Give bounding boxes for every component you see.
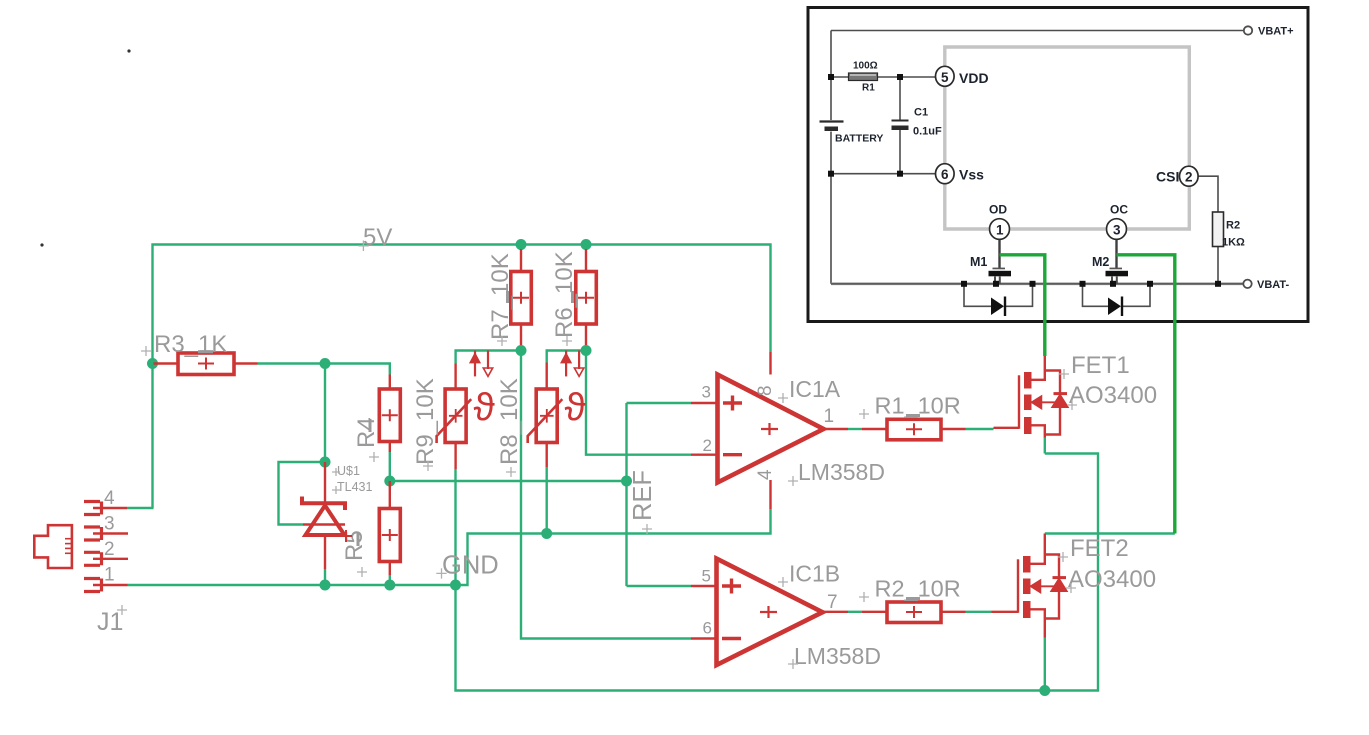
wire R5 bottom (389, 575, 391, 585)
inset M2 mosfet (1106, 268, 1129, 277)
inset pin circle 6 Vss (936, 164, 955, 184)
op-amp IC1A (691, 352, 848, 509)
inset IC box (945, 47, 1190, 229)
inset pin circle 2 CSI (1180, 166, 1199, 186)
svg-text:U$1: U$1 (337, 464, 360, 478)
resistor R3_1K (154, 353, 258, 375)
thermistor R8_10K (528, 351, 587, 468)
svg-text:4: 4 (755, 469, 776, 480)
svg-text:6: 6 (703, 619, 712, 638)
resistor R5 (379, 481, 400, 575)
svg-text:J1: J1 (97, 608, 123, 636)
op-amp IC1B (691, 559, 848, 665)
connector J1 (34, 525, 72, 568)
wire GND down-right (456, 454, 1099, 691)
inset M2 source drain stubs (1112, 277, 1117, 285)
inset M1 source drain stubs (995, 277, 1000, 285)
inset VBAT- terminal (1243, 280, 1251, 288)
wire FET2 drain from inset (1045, 532, 1175, 534)
inset pin circle 5 VDD (936, 66, 955, 86)
svg-text:3: 3 (104, 514, 115, 535)
svg-text:CSI: CSI (1156, 169, 1179, 185)
svg-text:8: 8 (755, 385, 776, 396)
wire TL431 ref loop (279, 462, 326, 525)
svg-text:R1: R1 (862, 83, 875, 94)
inset wire VBAT- rail (831, 282, 1243, 285)
svg-text:REF: REF (629, 470, 657, 521)
J1 pin 3 (84, 527, 128, 540)
wire R6 bottom node to R8 (547, 351, 691, 455)
inset diode M2 (1108, 297, 1122, 317)
resistor R1_10R (862, 419, 966, 440)
svg-text:1: 1 (996, 223, 1004, 238)
svg-text:LM358D: LM358D (794, 643, 881, 669)
resistor R6_10K (576, 249, 597, 345)
inset resistor R2 (1213, 212, 1224, 247)
red components (34, 249, 1068, 665)
svg-text:Vss: Vss (959, 167, 984, 183)
inset resistor R1 (849, 73, 878, 81)
wire TL431 bottom to GND (324, 569, 326, 585)
wire J1 pin4 to 5V (127, 507, 154, 509)
svg-text:4: 4 (104, 488, 115, 509)
svg-text:AO3400: AO3400 (1068, 566, 1156, 593)
wire R6 bottom joint (585, 345, 587, 351)
svg-text:5V: 5V (363, 224, 392, 251)
bright green wires from inset (1000, 255, 1175, 534)
inset M1 gate wire (998, 239, 1000, 268)
svg-text:R3_1K: R3_1K (154, 331, 227, 358)
J1 pin 1 (84, 579, 128, 592)
svg-text:BATTERY: BATTERY (835, 133, 883, 145)
gray labels (97, 224, 1157, 669)
wire R1 to FET1 gate gap (966, 428, 994, 430)
svg-text:IC1A: IC1A (789, 376, 841, 402)
svg-text:1KΩ: 1KΩ (1222, 237, 1245, 249)
svg-text:TL431: TL431 (337, 480, 372, 494)
inset wire CSI to R2 (1198, 176, 1218, 212)
wire IC1A out gap (848, 428, 862, 430)
svg-text:R2: R2 (1226, 220, 1240, 232)
svg-text:7: 7 (827, 592, 838, 613)
svg-text:6: 6 (941, 167, 949, 182)
wire IC1B out gap (848, 611, 862, 613)
svg-text:LM358D: LM358D (798, 459, 885, 485)
wire REF to IC1B pin5 (627, 585, 692, 587)
svg-text:5: 5 (702, 567, 711, 586)
inset wire C1 vertical (899, 77, 901, 120)
svg-text:VBAT-: VBAT- (1257, 279, 1290, 291)
wire R6 top stub (585, 245, 587, 251)
inset wire R2 to rail (1217, 247, 1219, 284)
svg-text:1: 1 (104, 565, 115, 586)
inset wire VBAT+ top (831, 30, 1243, 32)
svg-text:ϑ: ϑ (565, 387, 587, 430)
J1 pin 4 (84, 502, 127, 515)
wire R7 bottom joint (520, 345, 522, 351)
thermistor R9_10K (437, 351, 496, 470)
wire GND rail horizontal (128, 509, 771, 585)
svg-text:5: 5 (941, 70, 949, 85)
svg-text:R7_10K: R7_10K (487, 253, 514, 340)
svg-text:R4: R4 (353, 417, 380, 448)
svg-text:R9_10K: R9_10K (412, 378, 439, 465)
svg-text:0.1uF: 0.1uF (913, 126, 942, 138)
svg-text:2: 2 (703, 436, 712, 455)
wire R7 bottom node to R9 (456, 351, 691, 639)
inset text labels (835, 26, 1294, 292)
wire R3 output to R4 top (258, 364, 390, 375)
inset pin circle 1 OD (990, 219, 1010, 240)
inset VBAT+ terminal (1244, 26, 1252, 34)
TL431 U$1 (302, 462, 345, 569)
svg-text:ϑ: ϑ (474, 387, 496, 430)
inset diode M1 (991, 297, 1005, 317)
svg-text:100Ω: 100Ω (853, 61, 878, 72)
svg-text:OC: OC (1110, 203, 1128, 217)
svg-text:FET1: FET1 (1071, 352, 1130, 379)
resistor R4 (379, 375, 400, 453)
transistor FET2 AO3400 (992, 534, 1068, 638)
wire M1 gate to FET1 drain (1000, 255, 1045, 356)
speck dots (127, 49, 130, 52)
inset M1 mosfet (989, 268, 1012, 277)
wire REF to IC1A pin3 (627, 402, 692, 404)
wire node R3out to TL431 (324, 364, 326, 463)
svg-text:IC1B: IC1B (789, 561, 840, 587)
wire R2 to FET2 gate gap (966, 611, 992, 613)
wire R8 bottom to GND line (546, 467, 548, 534)
inset square junction dots (828, 74, 1221, 287)
svg-text:M1: M1 (970, 255, 987, 269)
wire R7 top stub (520, 245, 522, 251)
svg-text:C1: C1 (914, 107, 928, 119)
svg-text:GND: GND (442, 552, 499, 580)
svg-text:3: 3 (702, 383, 711, 402)
wire REF net (390, 480, 627, 482)
inset pin circle 3 OC (1107, 219, 1127, 240)
inset wire Vss row (831, 173, 937, 175)
svg-text:OD: OD (989, 203, 1007, 217)
thermistor arrows R8 (565, 351, 567, 377)
svg-text:2: 2 (104, 539, 115, 560)
resistor R7_10K (511, 249, 532, 345)
inset wire R1 row (831, 76, 937, 78)
svg-text:1: 1 (824, 406, 835, 427)
wire FET1 source drop (1044, 438, 1046, 454)
svg-text:AO3400: AO3400 (1069, 382, 1157, 409)
svg-text:VDD: VDD (959, 70, 989, 86)
wire FET2 source to rail (1044, 638, 1046, 691)
inset wire left vertical (830, 31, 832, 121)
svg-text:2: 2 (1185, 170, 1193, 185)
inset border (808, 8, 1308, 322)
wire M2 gate to FET2 drain (1117, 255, 1175, 534)
resistor R2_10R (862, 602, 966, 623)
transistor FET1 AO3400 (994, 356, 1069, 438)
wire 5V rail top (153, 245, 771, 509)
inset capacitor C1 (892, 121, 909, 131)
red origin cross R5 (340, 530, 352, 542)
gray dash marks (198, 291, 920, 599)
svg-text:FET2: FET2 (1070, 535, 1129, 562)
J1 pin 2 (84, 552, 128, 565)
inset M2 body diode loop (1083, 284, 1109, 307)
thermistor arrows R9 (474, 351, 476, 377)
svg-text:R8_10K: R8_10K (496, 378, 523, 465)
svg-text:3: 3 (1113, 223, 1121, 238)
wire R5 top (389, 452, 391, 478)
origin crosses (117, 241, 1077, 670)
inset M2 gate wire (1115, 239, 1117, 268)
svg-text:VBAT+: VBAT+ (1258, 26, 1294, 38)
inset M1 body diode loop (964, 284, 991, 307)
wire REF vertical (625, 403, 627, 586)
inset battery (820, 122, 844, 132)
svg-text:M2: M2 (1092, 255, 1109, 269)
